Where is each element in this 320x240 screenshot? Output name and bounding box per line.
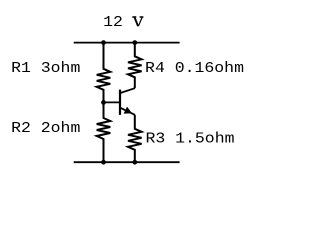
wire collector lead diagonal — [120, 88, 135, 93]
junction dot top-left — [101, 40, 106, 45]
transistor Q1 emitter arrow — [124, 107, 131, 113]
resistor R4 value label — [145, 60, 244, 77]
svg-text:R4 0.16ohm: R4 0.16ohm — [145, 60, 244, 77]
junction dot bottom-right — [132, 160, 137, 165]
node supply V unit glyph — [132, 17, 143, 26]
transistor Q1 base bar — [119, 90, 121, 115]
wire bottom ground rail — [74, 161, 180, 163]
wire top supply rail — [74, 42, 180, 44]
svg-text:R2 2ohm: R2 2ohm — [11, 119, 80, 136]
resistor R4 (zigzag with leads, right upper branch) — [128, 43, 142, 89]
resistor R2 value label — [11, 119, 80, 136]
wire emitter lead diagonal — [120, 108, 135, 115]
resistor R3 (zigzag with leads, right lower branch) — [128, 115, 142, 162]
svg-text:R3 1.5ohm: R3 1.5ohm — [145, 130, 234, 147]
svg-text:12: 12 — [103, 13, 123, 30]
node 12V supply label "12" — [103, 13, 123, 30]
resistor R3 value label — [145, 130, 234, 147]
junction dot top-right — [132, 40, 137, 45]
resistor R1 value label — [11, 59, 80, 76]
junction dot bottom-left — [101, 160, 106, 165]
junction dot base node — [101, 100, 106, 105]
resistor R1 (zigzag with leads, left upper branch) — [97, 43, 111, 103]
wire base lead — [104, 101, 121, 103]
resistor R2 (zigzag with leads, left lower branch) — [97, 102, 111, 162]
svg-text:R1 3ohm: R1 3ohm — [11, 59, 80, 76]
